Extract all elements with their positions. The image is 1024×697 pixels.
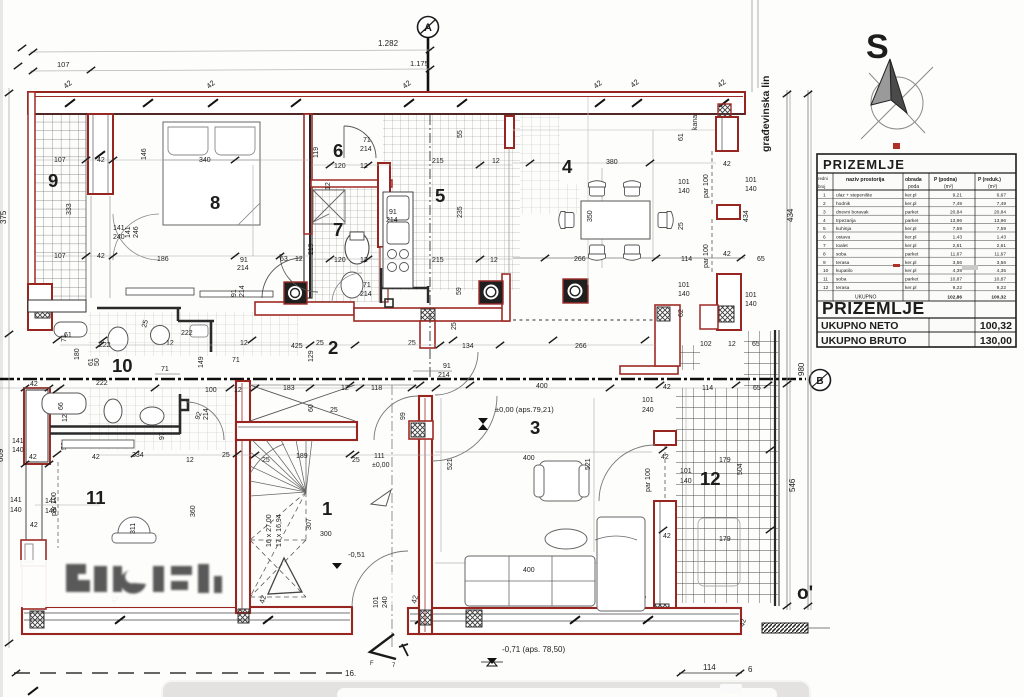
svg-text:146: 146 (141, 148, 148, 160)
svg-text:12: 12 (728, 341, 736, 348)
svg-text:10: 10 (823, 268, 829, 274)
svg-text:101: 101 (678, 282, 690, 289)
svg-text:3: 3 (530, 417, 540, 438)
svg-text:-0,71 (aps. 78,50): -0,71 (aps. 78,50) (502, 645, 565, 654)
svg-text:300: 300 (320, 531, 332, 538)
svg-text:111: 111 (374, 453, 385, 460)
svg-text:140: 140 (745, 186, 757, 193)
svg-text:214: 214 (203, 408, 210, 420)
svg-text:100,32: 100,32 (980, 320, 1012, 332)
svg-text:ker.pl: ker.pl (905, 260, 916, 266)
svg-text:trpezarija: trpezarija (836, 218, 856, 224)
room4 boundary dim line (513, 255, 745, 261)
svg-text:189: 189 (296, 453, 308, 460)
svg-text:ker.pl: ker.pl (905, 201, 916, 207)
svg-text:1,43: 1,43 (953, 235, 963, 241)
room4/terrace horizontal wall (620, 305, 680, 374)
svg-text:P (podna): P (podna) (934, 177, 957, 183)
svg-text:1: 1 (823, 193, 826, 199)
staircase lower dashed flight (250, 492, 306, 597)
svg-text:101: 101 (678, 179, 690, 186)
svg-text:11: 11 (86, 487, 106, 508)
svg-text:183: 183 (283, 385, 295, 392)
living room 3 armchair (534, 461, 589, 501)
room 6 door arc (344, 126, 376, 158)
svg-text:400: 400 (536, 383, 548, 390)
svg-text:101: 101 (680, 468, 692, 475)
svg-text:140: 140 (678, 188, 690, 195)
corridor wall stub below band (420, 321, 435, 348)
svg-text:parket: parket (905, 277, 919, 283)
dim labels corridor row (64, 115, 761, 414)
svg-text:91: 91 (231, 289, 238, 297)
svg-text:521: 521 (447, 458, 454, 470)
svg-text:42: 42 (30, 381, 38, 388)
bath 10 lower walls (50, 394, 188, 434)
svg-text:par 100: par 100 (51, 492, 58, 516)
svg-text:kupatilo: kupatilo (836, 268, 853, 274)
svg-text:130,00: 130,00 (980, 335, 1012, 347)
svg-text:12: 12 (62, 414, 69, 422)
room 7 toilet tiles (311, 188, 379, 302)
svg-text:9,22: 9,22 (953, 285, 963, 291)
svg-text:par 100: par 100 (703, 244, 710, 268)
svg-text:25: 25 (262, 457, 270, 464)
svg-text:214: 214 (438, 372, 450, 379)
svg-text:10,87: 10,87 (994, 277, 1006, 283)
svg-text:12: 12 (240, 340, 248, 347)
svg-text:425: 425 (291, 343, 303, 350)
svg-text:42: 42 (30, 522, 38, 529)
svg-text:609: 609 (0, 448, 5, 462)
svg-text:42: 42 (97, 157, 105, 164)
svg-text:140: 140 (678, 291, 690, 298)
svg-text:17 x 16,94: 17 x 16,94 (276, 514, 283, 547)
right wall room4: mid block (717, 205, 740, 219)
bottom dashed grade line (12, 669, 356, 695)
svg-text:3,56: 3,56 (953, 260, 963, 266)
svg-text:4,39: 4,39 (953, 268, 963, 274)
room11 par100 dashed line (57, 462, 59, 548)
svg-text:266: 266 (575, 343, 587, 350)
svg-text:980: 980 (797, 362, 806, 376)
svg-text:obrada: obrada (905, 177, 922, 183)
terrace 12 left wall pieces (645, 431, 676, 620)
svg-text:7,49: 7,49 (953, 201, 963, 207)
svg-text:214: 214 (360, 291, 372, 298)
svg-text:107: 107 (54, 157, 66, 164)
svg-text:141: 141 (12, 438, 24, 445)
svg-text:65: 65 (757, 256, 765, 263)
doors hall area (352, 396, 655, 607)
room 5 kitchen tiles (383, 114, 580, 290)
svg-text:91: 91 (240, 257, 248, 264)
svg-text:1.175: 1.175 (410, 59, 429, 68)
svg-text:13,96: 13,96 (950, 218, 962, 224)
svg-text:400: 400 (523, 455, 535, 462)
compass rose (861, 28, 933, 139)
table column rules (833, 173, 975, 347)
svg-text:4: 4 (562, 156, 573, 177)
section line B-B horizontal (0, 370, 831, 391)
svg-text:240: 240 (382, 596, 389, 608)
svg-text:B: B (816, 376, 823, 387)
svg-text:50: 50 (94, 358, 101, 366)
svg-text:12: 12 (186, 457, 194, 464)
svg-text:7: 7 (823, 243, 826, 249)
dim labels room 3 and stairs (130, 404, 592, 608)
svg-text:±0,00 (aps.79,21): ±0,00 (aps.79,21) (495, 405, 554, 414)
svg-text:140: 140 (12, 447, 24, 454)
svg-text:219: 219 (308, 243, 315, 255)
svg-text:6: 6 (823, 235, 826, 241)
svg-text:400: 400 (523, 567, 535, 574)
svg-text:59: 59 (456, 287, 463, 295)
top dimension chain 1.282 (29, 39, 434, 55)
kitchen counter (383, 192, 413, 288)
room 10 upper bath tiles (88, 312, 298, 450)
svg-text:soba: soba (836, 251, 847, 257)
svg-text:246: 246 (133, 226, 140, 238)
svg-text:179: 179 (719, 457, 731, 464)
svg-text:građevinska lin: građevinska lin (760, 76, 772, 152)
svg-text:434: 434 (743, 210, 750, 222)
svg-text:ker.pl: ker.pl (905, 235, 916, 241)
svg-text:2: 2 (328, 337, 338, 358)
svg-text:101: 101 (373, 596, 380, 608)
svg-text:100,32: 100,32 (991, 295, 1006, 301)
table body rows (817, 193, 1016, 301)
toilet room 7 fixtures (313, 190, 369, 298)
svg-text:141: 141 (113, 225, 125, 232)
level triangle room1 (371, 490, 391, 506)
svg-text:60: 60 (308, 404, 315, 412)
svg-text:soba: soba (836, 277, 847, 283)
svg-text:ker.pl: ker.pl (905, 193, 916, 199)
svg-text:141: 141 (10, 497, 22, 504)
svg-text:240: 240 (113, 234, 125, 241)
left exterior wall upper (28, 92, 35, 302)
watermark dark smudges (66, 564, 222, 594)
svg-text:(m²): (m²) (944, 184, 953, 190)
svg-text:65: 65 (752, 341, 760, 348)
staircase winder fan (250, 440, 312, 496)
top exterior wall (28, 92, 745, 114)
svg-text:114: 114 (702, 385, 713, 392)
svg-text:107: 107 (57, 60, 70, 69)
faint dimension guide lines (0, 130, 770, 603)
svg-text:215: 215 (432, 257, 444, 264)
bottom right retaining hatch (762, 623, 830, 633)
svg-text:toalet: toalet (836, 243, 848, 249)
svg-text:hodnik: hodnik (836, 201, 851, 207)
svg-text:PRIZEMLJE: PRIZEMLJE (822, 298, 925, 318)
right vertical dim line 980 (797, 90, 812, 610)
room 12 terrace tiles (676, 331, 778, 603)
svg-text:71: 71 (363, 137, 371, 144)
svg-text:101: 101 (745, 177, 757, 184)
svg-text:16.: 16. (345, 669, 356, 678)
right wall room4: top block (716, 104, 738, 151)
svg-text:65: 65 (753, 385, 761, 392)
svg-text:9,22: 9,22 (997, 285, 1007, 291)
svg-text:62: 62 (678, 309, 685, 317)
svg-text:546: 546 (788, 478, 797, 492)
svg-text:333: 333 (66, 203, 73, 215)
svg-text:7: 7 (333, 219, 343, 240)
svg-text:521: 521 (585, 458, 592, 470)
svg-text:114: 114 (703, 663, 716, 672)
dim labels room 4 (574, 133, 765, 317)
svg-text:16 x 27,00: 16 x 27,00 (266, 514, 273, 547)
bath 10 lower fixtures (42, 393, 164, 450)
bottom wall ticks (109, 594, 653, 624)
svg-text:5: 5 (435, 185, 445, 206)
svg-text:25: 25 (352, 457, 360, 464)
svg-text:(m²): (m²) (988, 184, 997, 190)
double door arcs room9-room8 (91, 196, 159, 298)
svg-text:25: 25 (451, 322, 458, 330)
svg-text:S: S (866, 28, 889, 66)
svg-text:10: 10 (112, 355, 133, 376)
svg-text:102,86: 102,86 (947, 295, 962, 301)
svg-text:8: 8 (823, 251, 826, 257)
svg-text:214: 214 (237, 265, 249, 272)
svg-text:6: 6 (748, 665, 753, 674)
svg-text:dnevni boravak: dnevni boravak (836, 209, 869, 215)
svg-text:222: 222 (96, 380, 108, 387)
svg-text:266: 266 (574, 256, 586, 263)
svg-text:par 100: par 100 (645, 468, 652, 492)
svg-text:9: 9 (48, 170, 58, 191)
svg-text:2: 2 (823, 201, 826, 207)
svg-text:20,84: 20,84 (994, 209, 1006, 215)
room numbers (48, 140, 721, 519)
svg-text:6,67: 6,67 (997, 193, 1007, 199)
svg-text:179: 179 (719, 536, 731, 543)
svg-text:9,21: 9,21 (953, 193, 963, 199)
svg-text:3,56: 3,56 (997, 260, 1007, 266)
entry arrow bottom (370, 634, 408, 669)
svg-text:134: 134 (462, 343, 474, 350)
red scan artifacts (893, 143, 978, 270)
section marker A (418, 17, 439, 93)
corridor top wall red band right (354, 274, 510, 321)
section A dashed line through plan (392, 115, 430, 648)
svg-text:380: 380 (606, 159, 618, 166)
svg-text:42: 42 (723, 161, 731, 168)
svg-text:100: 100 (205, 387, 217, 394)
svg-text:120: 120 (334, 257, 346, 264)
grey toolbar overlay bottom (162, 681, 810, 697)
living room 3 coffee table (545, 529, 587, 549)
svg-text:214: 214 (386, 217, 398, 224)
svg-text:71: 71 (363, 282, 371, 289)
svg-text:ker.pl: ker.pl (905, 268, 916, 274)
svg-text:UKUPNO BRUTO: UKUPNO BRUTO (821, 335, 907, 347)
svg-text:42: 42 (663, 384, 671, 391)
misc ticks mid plan (53, 337, 774, 533)
bath 10 upper walls (97, 308, 214, 352)
svg-text:8: 8 (210, 192, 220, 213)
svg-text:25: 25 (408, 340, 416, 347)
room 11 furniture (62, 440, 156, 543)
svg-text:140: 140 (745, 301, 757, 308)
svg-text:par 100: par 100 (703, 174, 710, 198)
room 8 door arc (262, 254, 318, 298)
svg-text:1.282: 1.282 (378, 39, 399, 48)
svg-text:25: 25 (330, 407, 338, 414)
svg-text:42: 42 (92, 454, 100, 461)
svg-text:±0,00: ±0,00 (372, 462, 390, 469)
svg-text:1,43: 1,43 (997, 235, 1007, 241)
svg-text:114: 114 (681, 256, 692, 263)
svg-text:180: 180 (74, 348, 81, 360)
svg-text:504: 504 (737, 463, 744, 475)
top wall ticks 42 (62, 77, 729, 107)
svg-text:kana: kana (692, 115, 699, 130)
svg-text:2,61: 2,61 (953, 243, 963, 249)
table header row (817, 176, 1016, 190)
X-braced slab band (250, 385, 418, 440)
svg-text:12: 12 (295, 256, 303, 263)
table footer PRIZEMLJE (817, 298, 1016, 347)
shelf under room8 (126, 288, 273, 297)
svg-text:120: 120 (334, 163, 346, 170)
par 100 dashed lines room4 (703, 151, 712, 274)
svg-text:140: 140 (10, 507, 22, 514)
dim labels rooms 6 7 5 (308, 130, 500, 298)
svg-text:360: 360 (190, 505, 197, 517)
svg-text:4,35: 4,35 (997, 268, 1007, 274)
watermark white patch (20, 560, 405, 607)
living room 3 sofa (465, 517, 740, 611)
column pillar mid (479, 281, 503, 304)
svg-text:2,61: 2,61 (997, 243, 1007, 249)
svg-text:118: 118 (371, 385, 382, 392)
svg-text:141: 141 (125, 226, 132, 238)
column pillar right (563, 279, 588, 303)
svg-text:66: 66 (58, 402, 65, 410)
left protruding wall block (28, 284, 52, 330)
svg-text:222: 222 (181, 330, 193, 337)
svg-text:11,67: 11,67 (950, 251, 962, 257)
svg-text:11,67: 11,67 (994, 251, 1006, 257)
stair direction arrow (268, 558, 302, 594)
svg-text:12: 12 (234, 387, 242, 394)
svg-text:101: 101 (642, 397, 654, 404)
svg-text:215: 215 (432, 158, 444, 165)
svg-text:42: 42 (97, 253, 105, 260)
svg-text:F: F (370, 661, 374, 667)
svg-text:kuhinja: kuhinja (836, 226, 852, 232)
svg-text:235: 235 (457, 206, 464, 218)
svg-text:-0,51: -0,51 (348, 550, 365, 559)
svg-text:42: 42 (661, 454, 669, 461)
bottom dim 114 (677, 663, 753, 676)
right wall room4: lower block (700, 274, 741, 330)
corridor-hall door arc (435, 352, 478, 395)
svg-text:4: 4 (823, 218, 826, 224)
svg-text:307: 307 (306, 518, 313, 530)
svg-text:129: 129 (308, 350, 315, 362)
svg-text:55: 55 (457, 130, 464, 138)
svg-text:340: 340 (199, 157, 211, 164)
svg-text:o': o' (797, 583, 813, 604)
svg-text:222: 222 (99, 342, 111, 349)
wall room8/6 vertical (304, 114, 312, 298)
left vertical dimension chain 375 (0, 45, 26, 648)
dining table room 4 (559, 168, 674, 268)
svg-text:parket: parket (905, 209, 919, 215)
svg-text:terasa: terasa (836, 260, 850, 266)
svg-text:7,49: 7,49 (997, 201, 1007, 207)
svg-text:12: 12 (700, 468, 721, 489)
svg-text:6: 6 (333, 140, 343, 161)
dim labels terrace 12 (661, 454, 748, 628)
svg-text:42: 42 (723, 251, 731, 258)
svg-text:61: 61 (678, 133, 685, 141)
left exterior wall lower (room 11) (21, 381, 53, 609)
bath 10 upper labels (61, 319, 205, 374)
bath 10 upper fixtures (54, 322, 208, 351)
toilet7 lower-left black jog (381, 268, 428, 307)
svg-text:91: 91 (389, 209, 397, 216)
svg-text:UKUPNO NETO: UKUPNO NETO (821, 320, 898, 332)
kitchen right red pier (505, 116, 514, 148)
svg-text:20,84: 20,84 (950, 209, 962, 215)
svg-text:11: 11 (823, 277, 828, 283)
svg-text:350: 350 (587, 210, 594, 222)
stairwell top red band (236, 422, 357, 440)
svg-text:149: 149 (198, 356, 205, 368)
svg-text:9: 9 (823, 260, 826, 266)
dim labels room 11 (10, 438, 197, 529)
svg-text:25: 25 (316, 340, 324, 347)
svg-text:101: 101 (745, 292, 757, 299)
hall top hatch block (409, 421, 433, 439)
svg-text:parket: parket (905, 251, 919, 257)
svg-text:42: 42 (663, 533, 671, 540)
svg-text:214: 214 (360, 146, 372, 153)
terrace 12 right edge (775, 330, 779, 606)
svg-text:375: 375 (0, 210, 8, 224)
svg-text:12: 12 (325, 182, 332, 190)
stairwell left red wall (236, 381, 250, 623)
room3 dim guide lines (435, 398, 652, 563)
svg-text:107: 107 (54, 253, 66, 260)
svg-text:186: 186 (157, 256, 169, 263)
svg-text:ker.pl: ker.pl (905, 243, 916, 249)
o prime label (797, 583, 813, 604)
svg-text:13,96: 13,96 (994, 218, 1006, 224)
svg-text:25: 25 (678, 222, 685, 230)
svg-text:terasa: terasa (836, 285, 850, 291)
svg-text:PRIZEMLJE: PRIZEMLJE (823, 157, 905, 172)
faint line ticks (56, 157, 654, 458)
svg-text:97: 97 (159, 432, 166, 440)
svg-text:ostava: ostava (836, 235, 850, 241)
svg-text:redni: redni (818, 176, 828, 181)
hall right red wall (419, 396, 432, 634)
bottom level mark -0,71 (481, 645, 565, 666)
wall 6/7 horizontal (311, 180, 392, 187)
svg-text:ker.pl: ker.pl (905, 226, 916, 232)
svg-text:61: 61 (64, 332, 72, 339)
wall 7/5 vertical (378, 163, 390, 302)
bath corridor door arc (332, 273, 362, 303)
right vertical dim line 434 (783, 90, 797, 610)
